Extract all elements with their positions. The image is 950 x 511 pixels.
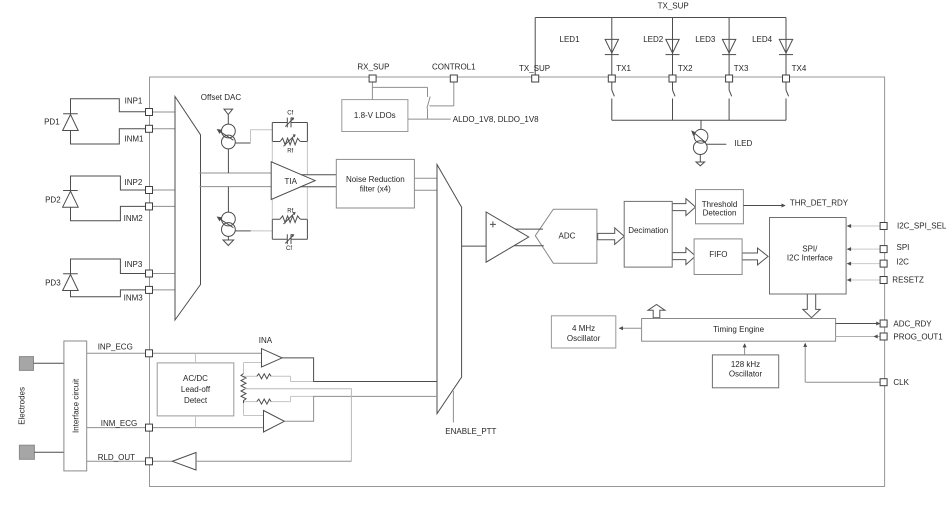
svg-text:Offset DAC: Offset DAC [201,93,242,102]
svg-text:ADC: ADC [559,232,576,241]
svg-text:INP3: INP3 [125,260,143,269]
svg-text:4 MHz: 4 MHz [572,324,595,333]
svg-text:Interface circuit: Interface circuit [71,378,80,433]
svg-text:ILED: ILED [735,139,753,148]
svg-text:128 kHz: 128 kHz [731,360,760,369]
svg-text:INP1: INP1 [125,97,143,106]
svg-text:Detect: Detect [184,396,208,405]
svg-text:INM_ECG: INM_ECG [101,419,137,428]
svg-text:INM3: INM3 [124,294,144,303]
svg-text:Cf: Cf [286,246,292,252]
svg-text:CONTROL1: CONTROL1 [432,63,476,72]
svg-text:I2C_SPI_SEL: I2C_SPI_SEL [897,222,947,231]
svg-text:CLK: CLK [893,378,909,387]
svg-text:SPI: SPI [897,243,910,252]
svg-text:1.8-V LDOs: 1.8-V LDOs [354,111,396,120]
svg-text:TX_SUP: TX_SUP [658,2,689,11]
svg-text:Detection: Detection [703,209,737,218]
svg-text:FIFO: FIFO [709,250,727,259]
svg-text:RESETZ: RESETZ [892,276,924,285]
svg-text:INP2: INP2 [125,178,143,187]
svg-text:Oscillator: Oscillator [729,370,763,379]
svg-text:LED1: LED1 [560,35,581,44]
svg-text:PROG_OUT1: PROG_OUT1 [893,333,943,342]
svg-text:RLD_OUT: RLD_OUT [98,453,135,462]
svg-text:AC/DC: AC/DC [183,374,208,383]
svg-text:LED3: LED3 [695,35,716,44]
svg-text:PD3: PD3 [45,279,61,288]
svg-text:PD1: PD1 [44,118,60,127]
svg-text:TX3: TX3 [734,64,749,73]
svg-text:TX2: TX2 [678,64,693,73]
svg-text:TX1: TX1 [616,64,631,73]
svg-text:Cf: Cf [287,111,293,117]
svg-text:INP_ECG: INP_ECG [98,343,133,352]
svg-text:LED4: LED4 [752,35,773,44]
svg-text:Rf: Rf [287,209,293,215]
svg-text:THR_DET_RDY: THR_DET_RDY [790,199,849,208]
svg-text:Noise Reduction: Noise Reduction [346,175,405,184]
svg-text:ENABLE_PTT: ENABLE_PTT [445,427,496,436]
svg-text:Oscillator: Oscillator [567,334,601,343]
svg-text:TIA: TIA [284,177,297,186]
svg-text:I2C Interface: I2C Interface [787,253,833,262]
svg-text:PD2: PD2 [45,196,61,205]
svg-text:INM1: INM1 [124,135,144,144]
svg-text:SPI/: SPI/ [802,245,818,254]
svg-text:INM2: INM2 [124,214,144,223]
svg-text:INA: INA [259,336,273,345]
svg-text:TX4: TX4 [792,64,807,73]
svg-text:I2C: I2C [897,258,910,267]
svg-text:LED2: LED2 [643,35,664,44]
svg-text:Rf: Rf [287,149,293,155]
svg-text:TX_SUP: TX_SUP [519,64,550,73]
svg-text:Electrodes: Electrodes [18,387,27,425]
svg-text:ADC_RDY: ADC_RDY [893,320,932,329]
svg-text:filter (x4): filter (x4) [360,185,391,194]
svg-text:Lead-off: Lead-off [181,385,211,394]
svg-text:Timing Engine: Timing Engine [713,325,764,334]
svg-text:RX_SUP: RX_SUP [357,63,389,72]
svg-text:ALDO_1V8, DLDO_1V8: ALDO_1V8, DLDO_1V8 [453,115,539,124]
svg-text:Decimation: Decimation [628,226,668,235]
